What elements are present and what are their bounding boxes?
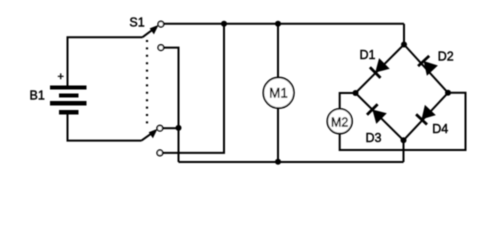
switch S1 pole-B arrowhead [149,129,158,139]
diode D2 triangle [424,61,438,76]
wire M1 bottom [277,108,279,162]
bridge edge wire T-R [404,45,448,93]
diode D4 cathode bar [416,114,427,124]
switch S1 contact 3 (pole B throw 1) [157,125,163,131]
node junction top rail / contact4 riser [221,21,227,27]
switch S1 contact 2 (pole A throw 2) [158,45,164,51]
wire bridge bottom drop [403,140,405,162]
svg-text:M2: M2 [331,115,348,129]
diode D4 triangle [422,105,436,120]
svg-text:B1: B1 [30,89,45,103]
bridge edge wire B-R [404,93,449,141]
meter M1 [263,78,294,109]
wire top rail [164,23,404,25]
diode D1 triangle [375,58,390,73]
svg-text:D4: D4 [432,122,448,136]
node junction contact3/vertical [176,125,182,131]
diode D1 cathode bar [370,67,381,78]
switch S1 gang dotted line [146,40,148,128]
bridge edge wire T-L [356,45,405,94]
switch S1 pole-A lever arm [143,27,157,37]
wire battery positive to switch pivot [68,37,143,85]
wire battery negative to lower pivot [68,115,142,141]
bridge edge wire L-B [356,93,404,140]
wire M2 bottom return to bridge right [340,93,466,150]
node bridge top [401,42,407,48]
wire top rail drop to bridge top [403,24,405,45]
svg-text:S1: S1 [129,16,144,30]
node junction bottom rail / M1 [275,159,281,165]
wire contact2 to common vertical [164,48,179,162]
svg-text:D3: D3 [366,131,382,145]
switch S1 pole-B lever arm [142,131,156,141]
wire contact3 to common vertical [163,127,179,129]
switch S1 contact 1 (pole A throw 1) [158,21,164,27]
diode D3 triangle [372,110,387,124]
wire M1 top [277,24,279,78]
switch S1 contact 4 (pole B throw 2) [157,150,163,156]
svg-text:D1: D1 [360,48,376,62]
svg-text:M1: M1 [269,86,288,101]
wire bridge left to M2 top [340,93,356,109]
switch S1 pole-A arrowhead [150,25,159,35]
svg-text:+: + [58,71,64,83]
node bridge bottom [401,137,407,143]
node bridge left [353,90,359,96]
wire bottom rail [179,161,404,163]
svg-text:D2: D2 [438,50,454,64]
meter M2 [327,109,352,134]
battery B1 [50,86,87,115]
wire contact4 up to top rail [163,24,224,153]
node bridge right [445,90,451,96]
diode D3 cathode bar [367,104,378,115]
diode D2 cathode bar [418,56,429,66]
node junction top rail / M1 [275,21,281,27]
